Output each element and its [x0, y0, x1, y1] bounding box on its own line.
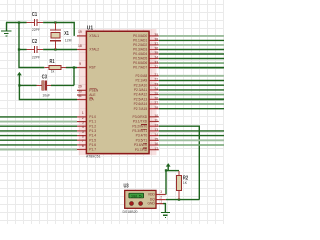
svg-text:8: 8 [82, 144, 84, 148]
svg-text:XTAL2: XTAL2 [89, 48, 99, 52]
svg-text:P0.0/AD0: P0.0/AD0 [133, 34, 147, 38]
svg-text:P2.4/A12: P2.4/A12 [134, 93, 148, 97]
svg-text:P1.2: P1.2 [89, 124, 96, 128]
svg-text:30: 30 [78, 89, 82, 93]
svg-text:U3: U3 [124, 183, 129, 189]
svg-text:P0.4/AD4: P0.4/AD4 [133, 52, 147, 56]
svg-text:35: 35 [154, 51, 158, 55]
svg-text:25: 25 [154, 92, 158, 96]
svg-text:22: 22 [154, 78, 158, 82]
svg-text:X1: X1 [64, 31, 69, 37]
svg-text:P3.7/RD: P3.7/RD [135, 148, 148, 152]
svg-text:P1.1: P1.1 [89, 120, 96, 124]
svg-text:P1.6: P1.6 [89, 143, 96, 147]
svg-text:1: 1 [160, 199, 162, 203]
svg-text:1: 1 [82, 111, 84, 115]
svg-text:P0.1/AD1: P0.1/AD1 [133, 39, 147, 43]
svg-text:32: 32 [154, 65, 158, 69]
svg-text:16: 16 [154, 142, 158, 146]
svg-text:21: 21 [154, 73, 158, 77]
svg-text:4: 4 [82, 125, 84, 129]
svg-text:23: 23 [154, 82, 158, 86]
svg-text:18: 18 [78, 44, 82, 48]
svg-text:36: 36 [154, 47, 158, 51]
svg-text:ALE: ALE [89, 93, 96, 97]
svg-text:P3.5/T1: P3.5/T1 [136, 138, 148, 142]
svg-text:P2.7/A15: P2.7/A15 [134, 107, 148, 111]
svg-text:C3: C3 [42, 74, 47, 80]
svg-text:P3.6/WR: P3.6/WR [134, 143, 148, 147]
svg-text:33: 33 [154, 60, 158, 64]
svg-text:34: 34 [154, 56, 158, 60]
svg-text:26: 26 [154, 97, 158, 101]
svg-text:P2.0/A8: P2.0/A8 [135, 74, 147, 78]
svg-text:3: 3 [82, 121, 84, 125]
svg-text:P0.7/AD7: P0.7/AD7 [133, 66, 147, 70]
svg-text:P0.3/AD3: P0.3/AD3 [133, 48, 147, 52]
svg-text:29: 29 [78, 85, 82, 89]
svg-text:22PF: 22PF [32, 55, 40, 59]
svg-text:5: 5 [82, 130, 84, 134]
svg-text:C1: C1 [32, 12, 37, 18]
svg-text:38.5: 38.5 [131, 194, 142, 198]
svg-text:P2.2/A10: P2.2/A10 [134, 83, 148, 87]
svg-text:XTAL1: XTAL1 [89, 34, 99, 38]
svg-text:27: 27 [154, 101, 158, 105]
svg-text:1K: 1K [183, 181, 188, 185]
svg-text:P0.2/AD2: P0.2/AD2 [133, 43, 147, 47]
svg-text:P0.6/AD6: P0.6/AD6 [133, 61, 147, 65]
svg-text:9: 9 [79, 62, 81, 66]
svg-text:P2.1/A9: P2.1/A9 [135, 79, 147, 83]
svg-text:P3.3/INT1: P3.3/INT1 [132, 129, 147, 133]
svg-text:P2.3/A11: P2.3/A11 [134, 88, 147, 92]
svg-text:7: 7 [82, 139, 84, 143]
svg-text:19: 19 [78, 30, 82, 34]
svg-text:GND: GND [147, 202, 155, 206]
svg-text:P0.5/AD5: P0.5/AD5 [133, 57, 147, 61]
svg-text:38: 38 [154, 38, 158, 42]
svg-text:6: 6 [82, 135, 84, 139]
svg-text:17: 17 [154, 147, 158, 151]
svg-text:3: 3 [160, 190, 162, 194]
svg-text:13: 13 [154, 128, 158, 132]
svg-text:R1: R1 [50, 59, 55, 65]
svg-text:P3.0/RXD: P3.0/RXD [133, 115, 148, 119]
svg-text:22PF: 22PF [32, 28, 40, 32]
svg-text:39: 39 [154, 33, 158, 37]
svg-text:P1.4: P1.4 [89, 134, 96, 138]
svg-text:P1.7: P1.7 [89, 148, 96, 152]
svg-text:14: 14 [154, 133, 158, 137]
svg-text:P1.0: P1.0 [89, 115, 96, 119]
svg-text:C2: C2 [32, 39, 37, 45]
svg-text:1k: 1k [51, 70, 55, 74]
svg-text:10: 10 [154, 114, 158, 118]
svg-text:15: 15 [154, 138, 158, 142]
svg-text:DS18B20: DS18B20 [123, 210, 138, 214]
svg-text:24: 24 [154, 87, 158, 91]
svg-text:P3.4/T0: P3.4/T0 [136, 134, 148, 138]
svg-text:P2.6/A14: P2.6/A14 [134, 102, 148, 106]
svg-text:AT89C51: AT89C51 [86, 154, 101, 158]
svg-text:P1.3: P1.3 [89, 129, 96, 133]
svg-text:U1: U1 [87, 25, 93, 31]
svg-text:37: 37 [154, 42, 158, 46]
svg-text:12M: 12M [65, 39, 72, 43]
svg-text:P2.5/A13: P2.5/A13 [134, 97, 148, 101]
svg-text:VDD: VDD [148, 193, 156, 197]
svg-text:P1.5: P1.5 [89, 138, 96, 142]
svg-text:31: 31 [78, 94, 82, 98]
svg-text:RST: RST [89, 66, 96, 70]
svg-text:11: 11 [154, 119, 158, 123]
svg-text:P3.2/INT0: P3.2/INT0 [132, 124, 147, 128]
svg-text:P3.1/TXD: P3.1/TXD [133, 120, 148, 124]
svg-text:12: 12 [154, 123, 158, 127]
svg-text:2: 2 [82, 116, 84, 120]
svg-text:10uF: 10uF [42, 93, 50, 97]
svg-text:28: 28 [154, 106, 158, 110]
